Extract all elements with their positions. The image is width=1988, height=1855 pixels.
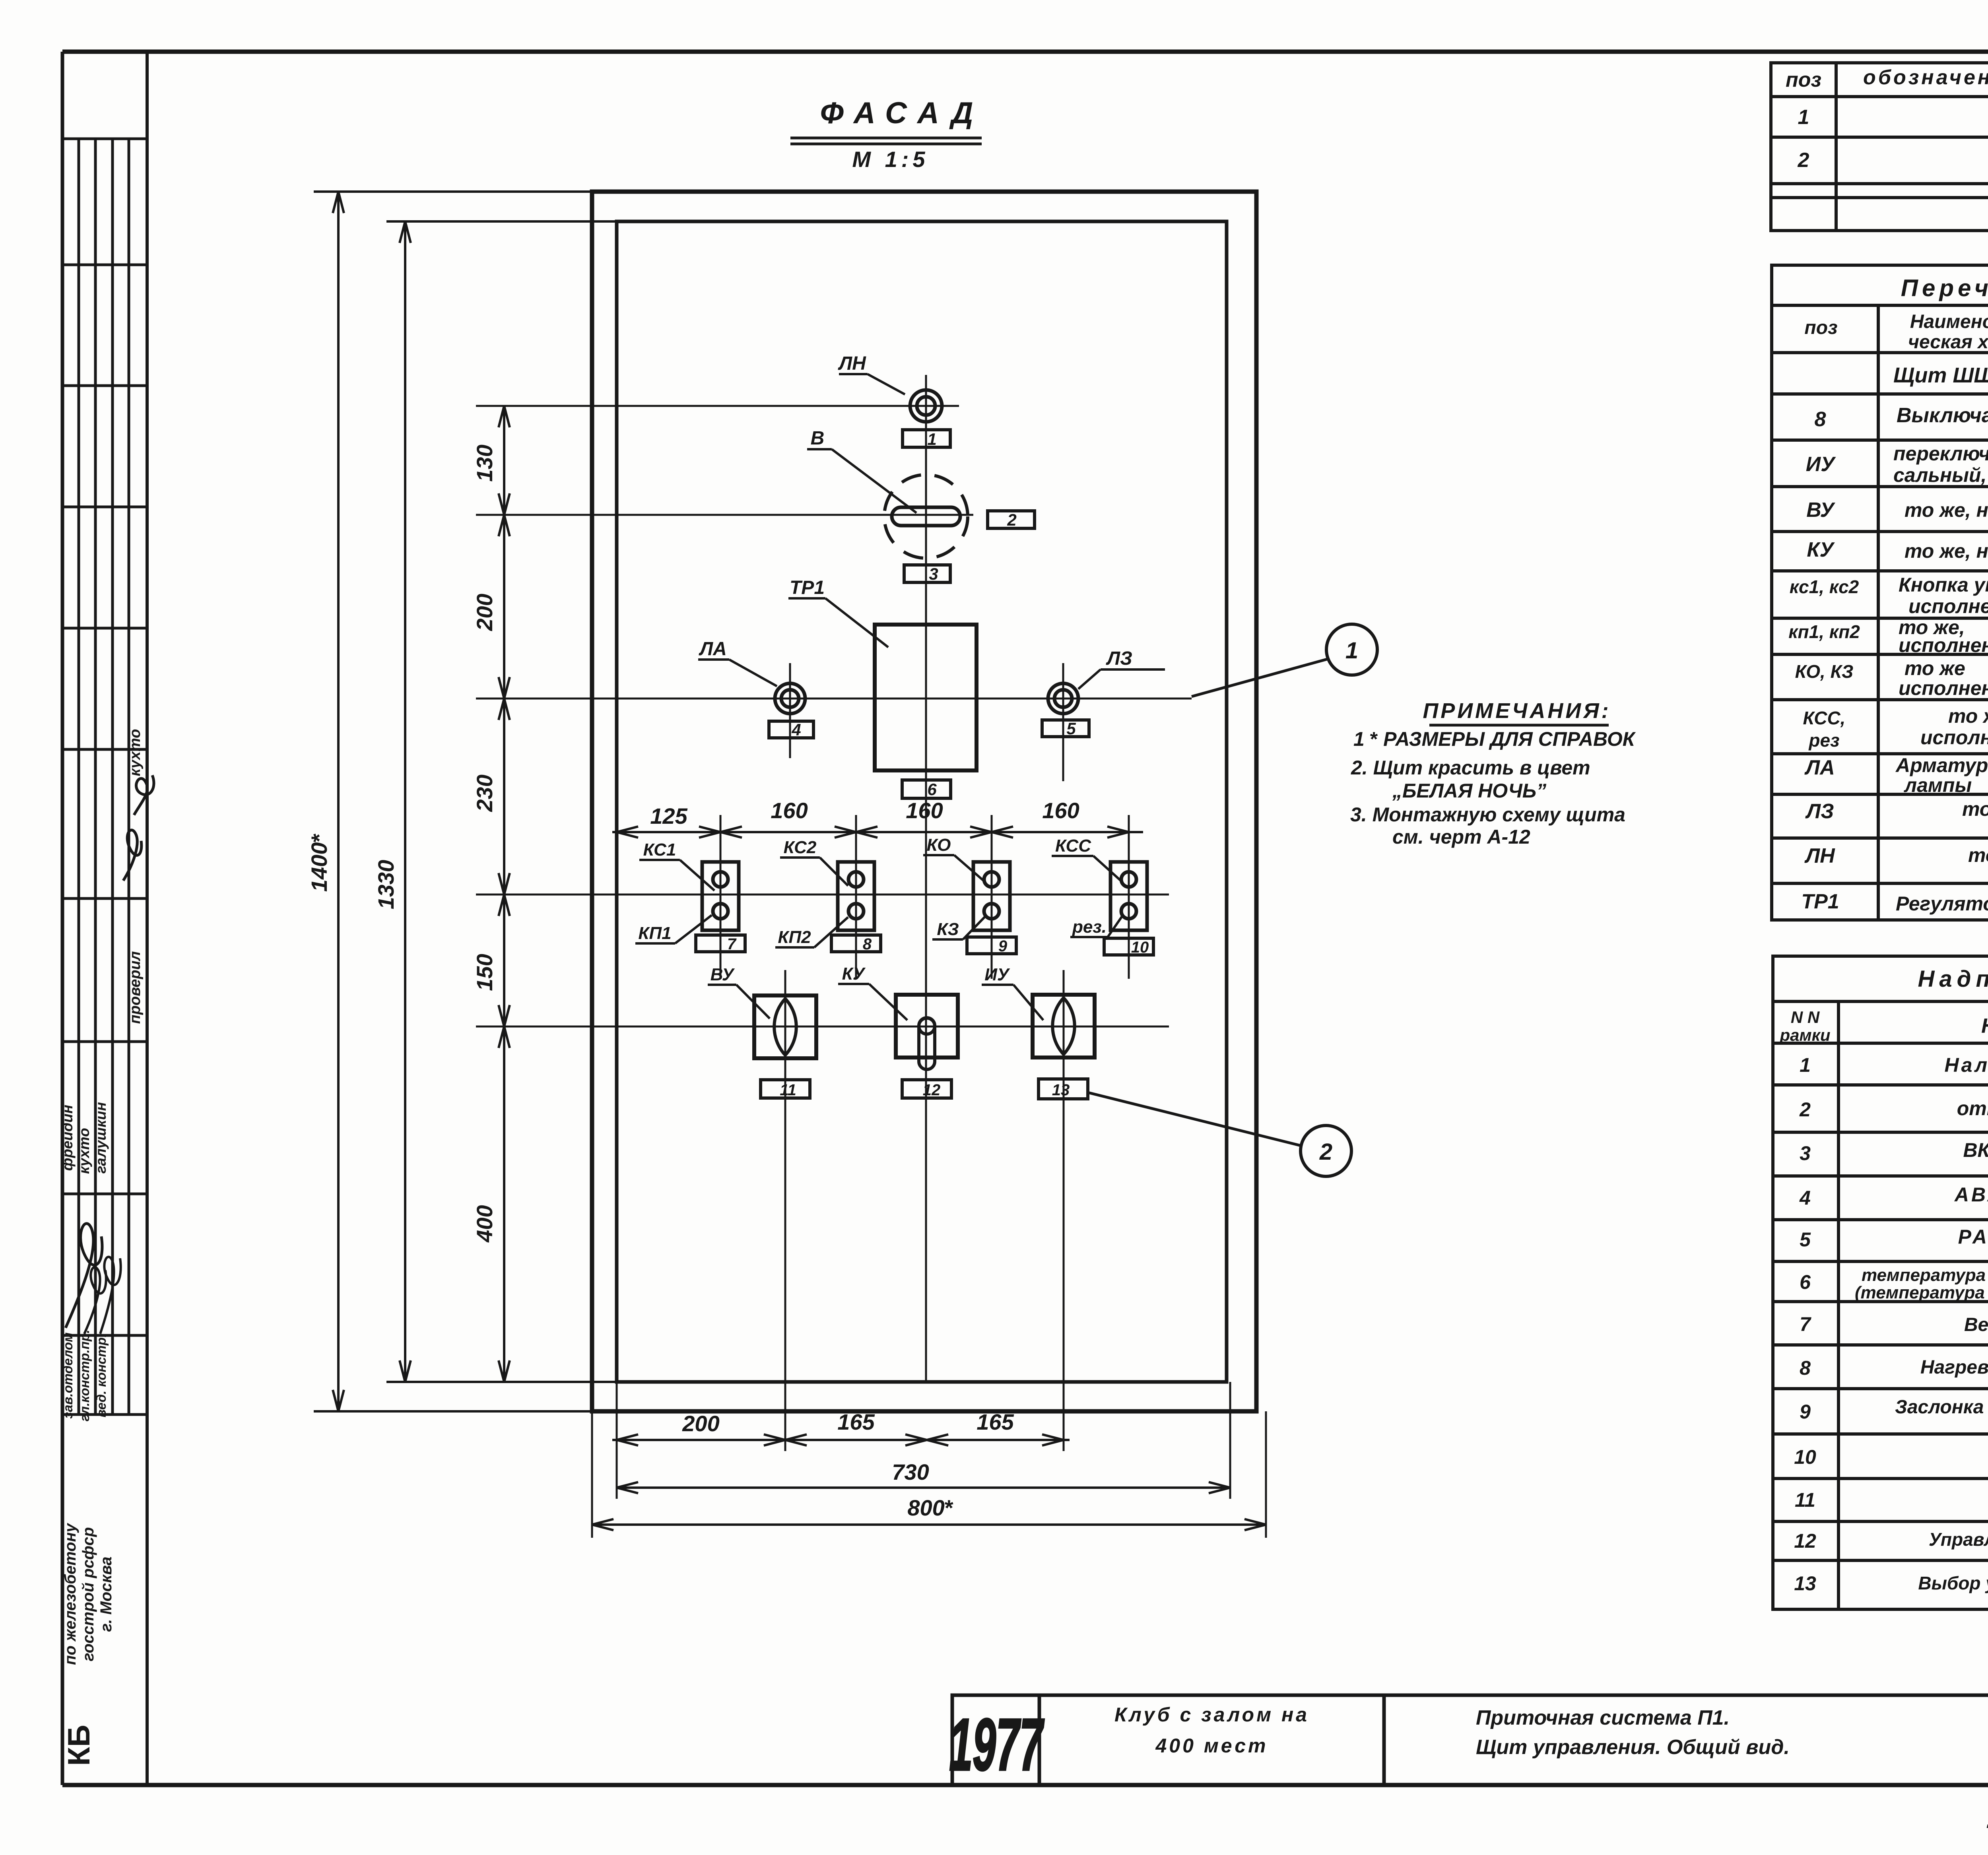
view title ФАСАД [790, 96, 984, 172]
switch ИУ square with lens handle [1033, 995, 1095, 1058]
svg-text:обозначение: обозначение [1863, 66, 1988, 89]
svg-text:Арматура сигнальной: Арматура сигнальной [1895, 754, 1988, 776]
svg-text:6: 6 [1800, 1271, 1811, 1293]
centerline: ИУ column [1063, 970, 1065, 1451]
svg-text:5: 5 [1800, 1228, 1811, 1251]
svg-text:9: 9 [998, 937, 1008, 955]
svg-text:исполнение 18: исполнение 18 [1920, 726, 1988, 749]
svg-text:кухто: кухто [76, 1128, 92, 1174]
svg-text:Управление клапаном на: Управление клапаном на теплоносителе [1929, 1529, 1988, 1550]
centerline: button column КС2 [855, 815, 857, 979]
lamp ЛА [775, 683, 805, 714]
svg-text:исполнение 23: исполнение 23 [1908, 595, 1988, 617]
frame inscriptions table Надписи в рамках grid [1773, 956, 1988, 1609]
svg-text:11: 11 [780, 1081, 796, 1099]
dimension 1400* (overall height) [314, 192, 592, 1411]
svg-text:откл.: откл. [1957, 1097, 1988, 1120]
switch ВУ square with lens handle [754, 995, 816, 1058]
frame 4 [769, 720, 813, 739]
svg-text:(температура воздуха в: (температура воздуха в помещении) [1855, 1283, 1988, 1302]
dimension 800* [592, 1523, 1266, 1526]
svg-text:КО, КЗ: КО, КЗ [1795, 661, 1854, 682]
label КП1 with leader [635, 915, 712, 943]
centerline: lamp ЛН row [476, 405, 959, 407]
device list table Перечень приборов grid [1772, 265, 1988, 920]
svg-text:Перечень приборов и аппарат: Перечень приборов и аппаратуры [1901, 275, 1988, 301]
svg-text:1: 1 [1345, 638, 1358, 664]
svg-text:8: 8 [1815, 408, 1826, 431]
svg-text:то же: то же [1968, 844, 1988, 866]
label РЕЗ with leader [1070, 916, 1122, 937]
centerline: lamps ЛА ЛЗ row [476, 698, 1192, 700]
svg-text:зав.отделом: зав.отделом [60, 1332, 75, 1418]
svg-text:Заслонка утепл.: Заслонка утепл. [1895, 1397, 1988, 1418]
svg-text:ПРИМЕЧАНИЯ:: ПРИМЕЧАНИЯ: [1423, 699, 1611, 723]
svg-text:КС1: КС1 [643, 840, 676, 860]
frame 1 [903, 430, 950, 448]
switch B dashed circle [884, 475, 968, 558]
svg-text:4: 4 [791, 720, 801, 739]
svg-text:3: 3 [929, 565, 938, 583]
svg-text:Приточная система П1.: Приточная система П1. [1476, 1706, 1730, 1729]
svg-text:10: 10 [1131, 939, 1149, 956]
specification table texts [1786, 64, 1988, 181]
svg-text:Вентилятор: Вентилятор [1964, 1314, 1988, 1335]
button КО/КЗ [973, 862, 1010, 930]
svg-text:Регулятор температуры: Регулятор температуры [1896, 893, 1988, 915]
svg-text:по железобетону: по железобетону [62, 1523, 79, 1665]
frame 3 [904, 565, 950, 583]
bottom chain dimension 200/165/165 [592, 1382, 1266, 1538]
svg-text:15964-02: 15964-02 [1986, 1799, 1988, 1835]
svg-text:температура приточного воз: температура приточного воздуха [1862, 1265, 1988, 1285]
cabinet outer rectangle (front view of ШКАФ ШМ) [592, 192, 1256, 1411]
svg-text:130: 130 [472, 444, 497, 481]
svg-text:гл.констр.пр.: гл.констр.пр. [77, 1330, 92, 1422]
svg-text:то же: то же [1905, 657, 1965, 679]
svg-text:НАДПИСЬ: НАДПИСЬ [1981, 1015, 1988, 1038]
svg-text:200: 200 [472, 594, 497, 631]
svg-text:12: 12 [923, 1081, 941, 1099]
svg-text:поз: поз [1804, 317, 1837, 338]
svg-text:рез.: рез. [1072, 917, 1107, 937]
svg-text:7: 7 [1800, 1313, 1811, 1335]
svg-text:200: 200 [682, 1411, 719, 1436]
label ЛН with leader [838, 353, 905, 394]
svg-text:г. Москва: г. Москва [97, 1556, 115, 1632]
svg-text:Клуб с залом на: Клуб с залом на [1114, 1704, 1309, 1726]
svg-text:переключатель универ-: переключатель универ- [1893, 442, 1988, 465]
centerline: buttons row [476, 894, 1169, 896]
device list header [1804, 311, 1988, 353]
svg-text:125: 125 [650, 803, 687, 829]
svg-text:В: В [811, 428, 825, 449]
svg-text:6: 6 [927, 780, 937, 799]
svg-text:Щит ШШМ 1400х800х600 ГОСТ: Щит ШШМ 1400х800х600 ГОСТ 3244-68 [1893, 363, 1988, 387]
horizontal chain dimension 125/160/160/160 above buttons [612, 831, 1143, 833]
frame inscriptions rows [1794, 1054, 1988, 1595]
specification table (top right) grid [1771, 63, 1988, 231]
svg-text:ЛН: ЛН [838, 353, 866, 374]
svg-text:см. черт А-12: см. черт А-12 [1392, 826, 1530, 848]
svg-text:кп1, кп2: кп1, кп2 [1788, 621, 1860, 642]
svg-text:АВАРИЯ: АВАРИЯ [1954, 1184, 1988, 1206]
label КС1 with leader [639, 840, 714, 891]
frame 10 [1104, 938, 1153, 956]
svg-text:2: 2 [1007, 510, 1016, 529]
svg-text:рамки: рамки [1779, 1026, 1830, 1044]
svg-text:то же, надпись N 36: то же, надпись N 36 [1905, 540, 1988, 562]
label ЛА with leader [698, 638, 777, 686]
switch B handle [892, 507, 960, 526]
svg-text:1: 1 [1800, 1054, 1811, 1076]
svg-text:рез: рез [1808, 730, 1839, 751]
svg-text:ЛЗ: ЛЗ [1106, 648, 1132, 669]
centerline: button column КС1 [720, 815, 722, 979]
svg-text:Кнопка управления: Кнопка управления [1899, 574, 1988, 596]
svg-text:„БЕЛАЯ НОЧЬ”: „БЕЛАЯ НОЧЬ” [1392, 780, 1546, 802]
svg-text:ВУ: ВУ [1806, 499, 1835, 522]
svg-text:11: 11 [1795, 1489, 1815, 1511]
svg-text:сальный, надпись N24: сальный, надпись N24 [1893, 464, 1988, 486]
centerline: switch B row [476, 514, 973, 516]
label В with leader [807, 428, 916, 513]
svg-text:лампы: лампы [1904, 774, 1972, 796]
svg-text:160: 160 [1042, 798, 1079, 823]
svg-text:Наличие напряжения: Наличие напряжения [1945, 1054, 1988, 1076]
svg-text:кс1, кс2: кс1, кс2 [1790, 576, 1859, 597]
button КС1/КП1 [702, 862, 739, 930]
bottom title block grid [952, 1695, 1988, 1785]
label ЛЗ with leader [1078, 648, 1165, 689]
svg-text:Щит управления. Общий вид.: Щит управления. Общий вид. [1476, 1736, 1790, 1759]
svg-text:ЛА: ЛА [699, 638, 727, 660]
svg-text:400 мест: 400 мест [1155, 1735, 1268, 1757]
svg-text:150: 150 [472, 954, 497, 991]
svg-text:1: 1 [1798, 106, 1809, 129]
temperature regulator ТР1 rectangle [875, 625, 977, 770]
svg-text:КУ: КУ [1807, 538, 1835, 561]
svg-text:Наименование и техни-: Наименование и техни- [1910, 311, 1988, 332]
centerline: ЛА lamp column [789, 663, 791, 758]
svg-text:вед. констр.: вед. констр. [94, 1334, 109, 1417]
svg-text:ЛН: ЛН [1804, 844, 1835, 867]
centerline: button column КО [991, 815, 993, 979]
svg-text:кухто: кухто [127, 729, 144, 776]
label ВУ with leader [708, 965, 770, 1019]
svg-text:поз: поз [1786, 68, 1821, 91]
svg-text:КУ: КУ [842, 964, 866, 984]
frame 12 [902, 1080, 951, 1099]
notes ПРИМЕЧАНИЯ block [1350, 699, 1636, 848]
centerline: button column КСС [1128, 815, 1130, 979]
svg-text:Выключатель пакетный: Выключатель пакетный [1897, 404, 1988, 427]
frame 6 [902, 780, 951, 799]
svg-text:N N: N N [1791, 1008, 1820, 1026]
label ТР1 with leader [788, 577, 888, 647]
svg-text:1 * РАЗМЕРЫ ДЛЯ СПРАВОК: 1 * РАЗМЕРЫ ДЛЯ СПРАВОК [1353, 728, 1636, 750]
label КО with leader [923, 835, 985, 882]
callout balloon 1 with leader [1192, 624, 1377, 697]
svg-text:КС2: КС2 [784, 838, 817, 857]
svg-text:10: 10 [1794, 1446, 1816, 1468]
svg-text:730: 730 [892, 1459, 929, 1484]
svg-text:исполнение 19: исполнение 19 [1899, 677, 1988, 699]
svg-text:Надписи в рамках: Надписи в рамках [1918, 966, 1988, 992]
svg-text:КП2: КП2 [778, 927, 811, 947]
label КСС with leader [1052, 836, 1122, 882]
svg-text:Нагреватель: Нагреватель [1920, 1357, 1988, 1378]
lamp ЛН [910, 390, 942, 422]
label КЗ with leader [932, 916, 986, 939]
svg-text:проверил: проверил [127, 951, 144, 1024]
svg-text:ФАСАД: ФАСАД [820, 96, 984, 130]
centerline: main vertical axis [925, 375, 927, 1382]
dimension 730 [617, 1486, 1230, 1489]
svg-text:2: 2 [1799, 1098, 1811, 1121]
frame 13 [1039, 1079, 1088, 1099]
callout balloon 2 with leader [1088, 1092, 1351, 1176]
cabinet inner door rectangle [617, 221, 1227, 1382]
svg-text:ВУ: ВУ [711, 965, 735, 984]
svg-text:13: 13 [1794, 1572, 1816, 1595]
button КСС/РЕЗ [1110, 862, 1147, 930]
svg-text:2: 2 [1319, 1139, 1332, 1165]
label КП2 with leader [775, 917, 848, 947]
svg-text:М 1:5: М 1:5 [852, 147, 929, 172]
svg-text:ВКЛ.: ВКЛ. [1963, 1139, 1988, 1161]
svg-text:КСС: КСС [1055, 836, 1091, 856]
switch КУ square with knob [896, 995, 958, 1069]
centerline: ЛЗ lamp column [1062, 663, 1064, 781]
svg-text:2. Щит красить в цвет: 2. Щит красить в цвет [1351, 757, 1590, 779]
strip signatures (three) [66, 1224, 102, 1328]
svg-text:1330: 1330 [373, 860, 398, 910]
lamp ЛЗ [1048, 683, 1078, 714]
svg-text:1977: 1977 [949, 1704, 1045, 1786]
frame 9 [967, 937, 1016, 955]
button КС2/КП2 [838, 862, 874, 930]
left title-block strip grid [62, 52, 147, 1785]
svg-text:ТР1: ТР1 [1801, 890, 1839, 913]
svg-text:Выбор управления клапано: Выбор управления клапаном на теплоносите… [1918, 1573, 1988, 1593]
label ИУ with leader [982, 965, 1043, 1020]
svg-text:КБ: КБ [61, 1725, 96, 1766]
strip signature (checker) [123, 775, 154, 881]
frame 5 [1042, 719, 1089, 738]
svg-text:1: 1 [927, 430, 936, 448]
svg-text:8: 8 [863, 935, 872, 953]
svg-text:5: 5 [1066, 719, 1076, 738]
svg-text:госстрой рсфср: госстрой рсфср [80, 1527, 97, 1661]
svg-text:то же, надпись N 46: то же, надпись N 46 [1905, 499, 1988, 521]
svg-text:4: 4 [1799, 1187, 1811, 1209]
svg-text:3. Монтажную схему щита: 3. Монтажную схему щита [1350, 803, 1625, 826]
svg-text:7: 7 [727, 935, 737, 953]
svg-text:исполнение 24: исполнение 24 [1899, 634, 1988, 656]
svg-text:12: 12 [1794, 1530, 1816, 1552]
svg-text:галушкин: галушкин [93, 1102, 109, 1174]
svg-text:160: 160 [771, 798, 808, 823]
svg-text:ЛЗ: ЛЗ [1805, 800, 1834, 823]
svg-text:ческая характеристика: ческая характеристика [1908, 332, 1988, 353]
frame 11 [761, 1080, 810, 1099]
svg-text:ИУ: ИУ [1806, 453, 1836, 476]
svg-text:то же: то же [1948, 705, 1988, 727]
vertical chain dimension line 130/200/230/150/400 [503, 406, 505, 1382]
svg-text:2: 2 [1798, 149, 1809, 172]
label КУ with leader [838, 964, 907, 1020]
svg-text:ТР1: ТР1 [790, 577, 825, 598]
centerline: switches row [476, 1026, 1169, 1028]
svg-text:КП1: КП1 [638, 924, 671, 943]
frame 2 [988, 510, 1035, 529]
frame inscriptions header [1779, 1008, 1988, 1044]
dimension 1330 (door height) [386, 221, 617, 1382]
svg-text:400: 400 [472, 1205, 497, 1242]
svg-text:165: 165 [837, 1409, 875, 1434]
svg-text:ЛА: ЛА [1804, 756, 1835, 779]
svg-text:800*: 800* [907, 1495, 953, 1520]
svg-text:ИУ: ИУ [984, 965, 1010, 984]
label КС2 with leader [780, 838, 848, 886]
centerline: ВУ column [784, 970, 786, 1451]
svg-text:КО: КО [927, 835, 951, 855]
svg-text:230: 230 [472, 774, 497, 812]
svg-text:3: 3 [1800, 1142, 1811, 1164]
svg-text:РАБОТА: РАБОТА [1958, 1226, 1988, 1248]
svg-text:165: 165 [977, 1409, 1014, 1434]
svg-text:160: 160 [906, 798, 943, 823]
svg-text:КСС,: КСС, [1803, 708, 1846, 728]
svg-text:8: 8 [1800, 1357, 1811, 1379]
device list rows [1788, 399, 1988, 918]
frame 7 [696, 935, 745, 953]
svg-text:КЗ: КЗ [937, 920, 959, 939]
svg-text:9: 9 [1800, 1401, 1811, 1423]
frame 8 [831, 935, 881, 953]
svg-text:1400*: 1400* [307, 834, 332, 892]
svg-text:то же: то же [1962, 798, 1988, 820]
svg-text:фрейдин: фрейдин [59, 1105, 76, 1171]
svg-text:13: 13 [1052, 1081, 1070, 1099]
